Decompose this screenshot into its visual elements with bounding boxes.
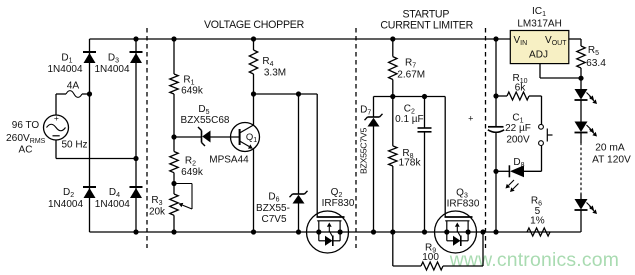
- svg-text:ADJ: ADJ: [529, 50, 548, 61]
- svg-text:1N4004: 1N4004: [48, 199, 83, 210]
- svg-text:200V: 200V: [506, 134, 530, 145]
- svg-text:BZX55C7V5: BZX55C7V5: [359, 128, 369, 174]
- svg-text:BZX55-: BZX55-: [256, 203, 290, 214]
- svg-text:50 Hz: 50 Hz: [61, 140, 87, 151]
- svg-text:2.67M: 2.67M: [397, 70, 425, 81]
- svg-text:649k: 649k: [181, 167, 204, 178]
- svg-text:+: +: [468, 114, 473, 124]
- svg-text:www.cntronics.com: www.cntronics.com: [449, 249, 619, 271]
- svg-text:22 µF: 22 µF: [505, 123, 531, 134]
- svg-text:CURRENT LIMITER: CURRENT LIMITER: [380, 19, 473, 31]
- svg-text:0.1 µF: 0.1 µF: [395, 114, 424, 125]
- svg-text:3.3M: 3.3M: [264, 68, 286, 79]
- svg-text:VOLTAGE CHOPPER: VOLTAGE CHOPPER: [204, 19, 305, 31]
- svg-text:AC: AC: [19, 145, 33, 156]
- svg-text:1%: 1%: [530, 216, 545, 227]
- svg-text:IRF830: IRF830: [322, 198, 355, 209]
- svg-text:20k: 20k: [149, 207, 166, 218]
- svg-text:96 TO: 96 TO: [12, 120, 40, 131]
- svg-text:20 mA: 20 mA: [595, 143, 625, 154]
- svg-text:1N4004: 1N4004: [47, 64, 82, 75]
- svg-text:100: 100: [422, 252, 439, 263]
- svg-text:AT 120V: AT 120V: [592, 155, 631, 166]
- svg-text:649k: 649k: [181, 86, 204, 97]
- svg-text:1N4004: 1N4004: [95, 199, 130, 210]
- svg-text:1N4004: 1N4004: [94, 64, 129, 75]
- svg-text:178k: 178k: [398, 158, 421, 169]
- svg-text:LM317AH: LM317AH: [517, 19, 561, 30]
- svg-text:MPSA44: MPSA44: [209, 155, 249, 166]
- svg-text:63.4: 63.4: [586, 58, 606, 69]
- svg-text:C7V5: C7V5: [261, 214, 286, 225]
- svg-text:6k: 6k: [515, 83, 527, 94]
- svg-text:IRF830: IRF830: [447, 199, 480, 210]
- svg-text:4A: 4A: [67, 81, 80, 92]
- svg-text:BZX55C68: BZX55C68: [181, 115, 230, 126]
